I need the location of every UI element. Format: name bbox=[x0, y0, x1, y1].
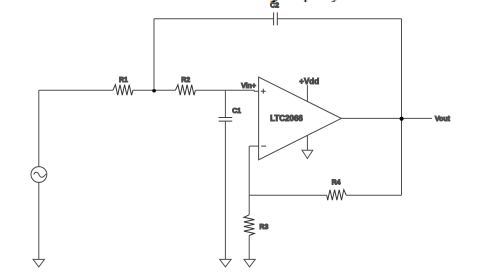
title fragment 1 (cropped text above C2) bbox=[271, 0, 278, 2]
wire: R1 to R2 bbox=[133, 89, 176, 91]
resistor R3 bbox=[244, 215, 255, 236]
wire: source bottom to ground bbox=[38, 182, 40, 259]
wire: output from op-amp apex bbox=[341, 117, 432, 119]
svg-text:R2: R2 bbox=[181, 77, 190, 84]
svg-text:C2: C2 bbox=[270, 3, 279, 10]
voltage source V1 (AC sine source) bbox=[31, 167, 47, 183]
svg-text:Vin+: Vin+ bbox=[241, 83, 256, 90]
wire: R4 right segment bbox=[346, 194, 401, 196]
wire: top-left horizontal to R1 bbox=[39, 89, 113, 91]
wire: feedback riser from R1/R2 node up bbox=[153, 19, 155, 91]
wire: C1 branch from main line bbox=[224, 90, 226, 117]
wire: inverting node vertical (minus input down to R3) bbox=[248, 146, 250, 215]
wire: R4 left segment to inverting node bbox=[249, 194, 327, 196]
resistor R4 bbox=[327, 190, 347, 201]
minus marker bbox=[261, 145, 266, 147]
wire: left vertical from main line down to source bbox=[38, 90, 40, 167]
wire: C1 to ground bbox=[224, 121, 226, 259]
plus marker bbox=[261, 89, 266, 94]
op-amp U1 LTC2066 bbox=[259, 77, 342, 160]
wire: C2 to right rail bbox=[277, 18, 401, 20]
title fragment 2 (cropped descender) bbox=[304, 0, 308, 2]
svg-text:LTC2066: LTC2066 bbox=[270, 114, 303, 123]
svg-text:R4: R4 bbox=[332, 180, 341, 187]
wire: right rail vertical down to R4 corner bbox=[401, 19, 403, 196]
ground (source) bbox=[33, 259, 44, 267]
V- pin to ground below op-amp bbox=[306, 135, 308, 150]
svg-text:R1: R1 bbox=[119, 77, 128, 84]
resistor R2 bbox=[175, 85, 195, 96]
node junction (output) bbox=[400, 117, 404, 121]
ground (C1) bbox=[220, 259, 231, 267]
svg-text:Vout: Vout bbox=[435, 116, 451, 123]
capacitor C2 bbox=[274, 12, 278, 25]
capacitor C1 bbox=[219, 118, 233, 122]
wire: minus input horizontal bbox=[249, 145, 258, 147]
node junction (R1/R2/C2 feedback) bbox=[152, 89, 156, 93]
wire: R3 to ground bbox=[248, 236, 250, 260]
ground (op-amp V-) bbox=[302, 150, 313, 158]
svg-text:+Vdd: +Vdd bbox=[299, 77, 319, 86]
svg-text:C1: C1 bbox=[232, 108, 241, 115]
wire: R2 to op-amp noninverting input bbox=[195, 90, 258, 91]
resistor R1 bbox=[113, 85, 133, 96]
+Vdd supply pin bbox=[306, 85, 308, 102]
svg-text:R3: R3 bbox=[259, 224, 268, 231]
ground (R3) bbox=[244, 259, 255, 267]
title fragment 3 (cropped y-descender) bbox=[332, 0, 337, 1]
wire: top feedback horizontal to C2 bbox=[154, 18, 274, 20]
